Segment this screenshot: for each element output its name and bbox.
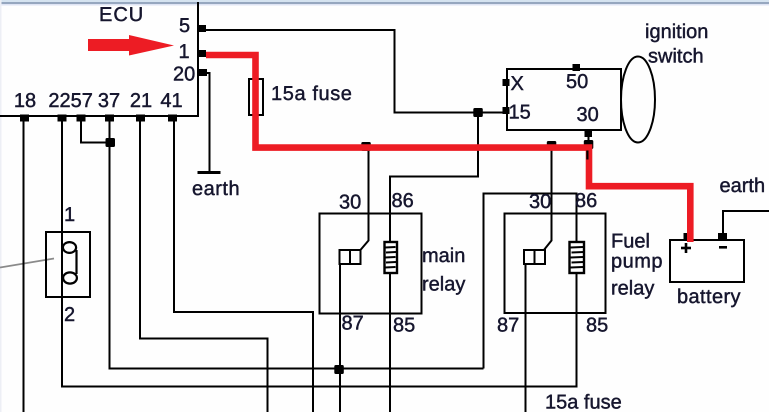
ignition switch terminal X bbox=[503, 79, 510, 86]
battery plus sign bbox=[681, 247, 691, 250]
ECU pin 22 terminal bbox=[58, 115, 67, 122]
fuel pump connector box bbox=[46, 232, 90, 297]
junction node: main relay 87 on lower bus bbox=[334, 365, 344, 374]
wire: red feed junction down to fuel pump relay 30 switch bbox=[544, 146, 552, 251]
wire: battery negative to earth at right edge bbox=[723, 211, 769, 233]
junction node: ignition 30 tap on red feed bbox=[584, 140, 594, 149]
svg-text:30: 30 bbox=[577, 104, 599, 126]
wire: ECU pin 21 down and to bottom edge bbox=[140, 121, 268, 412]
svg-text:X: X bbox=[511, 73, 524, 95]
red pointer arrow at ECU pin 1 bbox=[88, 35, 174, 56]
red power feed wire: ECU pin 1 to battery positive bbox=[206, 55, 690, 242]
left window border strip bbox=[0, 0, 2, 412]
ECU pin 18 terminal bbox=[20, 115, 29, 122]
junction node: fuel pump relay 30 tap on red feed bbox=[547, 141, 557, 150]
svg-text:20: 20 bbox=[173, 64, 195, 86]
svg-text:21: 21 bbox=[130, 90, 152, 112]
svg-text:relay: relay bbox=[611, 278, 654, 300]
fuel pump relay coil bbox=[570, 242, 585, 273]
wire: ECU pin 57 joining pin 37 wire bbox=[81, 121, 110, 143]
svg-text:85: 85 bbox=[586, 315, 608, 337]
ignition switch terminal 30 bbox=[585, 130, 593, 137]
ECU pin 5 terminal bbox=[199, 25, 206, 32]
svg-text:pump: pump bbox=[611, 251, 663, 273]
top window border strip bbox=[0, 0, 769, 2]
svg-text:15: 15 bbox=[509, 102, 531, 124]
svg-text:30: 30 bbox=[339, 192, 361, 214]
wire: main relay 87 down to junction bbox=[339, 264, 341, 412]
svg-text:main: main bbox=[422, 245, 465, 267]
connector pin 2 circle bbox=[63, 272, 77, 283]
svg-text:85: 85 bbox=[393, 315, 415, 337]
fuel pump relay switch contact bbox=[524, 250, 545, 264]
wire: lower bus up to fuel pump relay coil 86 bbox=[484, 194, 577, 369]
svg-text:ECU: ECU bbox=[99, 4, 144, 26]
svg-text:87: 87 bbox=[497, 315, 519, 337]
svg-text:switch: switch bbox=[648, 46, 704, 68]
svg-text:15a fuse: 15a fuse bbox=[545, 392, 622, 412]
svg-text:22: 22 bbox=[48, 90, 70, 112]
wire: junction to main relay coil 86 bbox=[390, 113, 478, 243]
main relay box bbox=[320, 214, 422, 314]
svg-text:41: 41 bbox=[160, 90, 182, 112]
15a fuse symbol (top) bbox=[249, 79, 263, 115]
junction node: main relay 30 tap on red feed bbox=[361, 142, 371, 151]
svg-text:Fuel: Fuel bbox=[611, 231, 650, 253]
ECU pin 41 terminal bbox=[168, 115, 177, 122]
svg-text:87: 87 bbox=[342, 313, 364, 335]
svg-text:2: 2 bbox=[64, 304, 75, 326]
wire: ignition switch terminal 30 stub down through red feed bbox=[588, 136, 590, 160]
ECU pin 20 terminal bbox=[199, 69, 207, 76]
ignition switch terminal 50 bbox=[573, 64, 581, 71]
svg-text:57: 57 bbox=[71, 90, 93, 112]
svg-text:earth: earth bbox=[720, 175, 766, 197]
svg-text:relay: relay bbox=[422, 274, 465, 296]
ignition switch contact ellipse bbox=[621, 57, 655, 143]
wire: ignition 30 stub visible below red feed bbox=[586, 151, 588, 160]
wire: red feed junction down to main relay 30 switch bbox=[360, 146, 369, 251]
svg-text:30: 30 bbox=[529, 191, 551, 213]
battery box bbox=[670, 240, 744, 282]
svg-text:50: 50 bbox=[566, 71, 588, 93]
svg-text:5: 5 bbox=[179, 15, 190, 37]
ignition switch terminal 15 bbox=[503, 107, 510, 114]
svg-text:earth: earth bbox=[192, 178, 240, 200]
wire: ECU pin 37 to lower bus bbox=[110, 121, 484, 369]
junction node: pin5 net / ignition 15 bbox=[473, 108, 483, 117]
svg-text:ignition: ignition bbox=[645, 21, 708, 43]
ECU pin 37 terminal bbox=[105, 115, 114, 122]
junction node: pin57/pin37 bbox=[106, 138, 116, 147]
wire: ECU pin 20 to earth bbox=[206, 73, 210, 172]
svg-text:1: 1 bbox=[64, 204, 75, 226]
svg-text:86: 86 bbox=[575, 190, 597, 212]
gray annotation line pointing to pump connector bbox=[0, 259, 54, 268]
battery minus sign bbox=[719, 246, 727, 249]
svg-text:37: 37 bbox=[98, 90, 120, 112]
ECU box (right and bottom edges) bbox=[197, 2, 199, 117]
main relay coil bbox=[385, 242, 398, 273]
ignition switch box bbox=[507, 69, 621, 130]
svg-text:86: 86 bbox=[392, 190, 414, 212]
fuel pump relay box bbox=[505, 214, 606, 314]
connector jumper bar bbox=[75, 250, 77, 274]
wire: fuel pump relay 87 down to bottom fuse bbox=[525, 264, 527, 412]
wire: main relay 85 down to bottom bbox=[389, 273, 391, 412]
svg-text:1: 1 bbox=[179, 41, 190, 63]
ECU pin 57 terminal bbox=[77, 115, 86, 122]
main relay switch contact bbox=[340, 250, 361, 264]
ECU pin 1 terminal bbox=[199, 50, 206, 57]
svg-text:18: 18 bbox=[14, 90, 36, 112]
svg-text:battery: battery bbox=[677, 286, 741, 308]
wire: ECU pin 41 down and to bottom edge bbox=[174, 121, 313, 412]
wire: ECU pin 18 straight down bbox=[23, 121, 25, 412]
svg-text:15a fuse: 15a fuse bbox=[271, 83, 353, 105]
ECU pin 21 terminal bbox=[136, 115, 145, 122]
battery positive terminal bbox=[684, 233, 692, 241]
wire: ECU pin 22 to fuel pump relay 85 bbox=[62, 121, 577, 387]
connector pin 1 circle bbox=[63, 242, 76, 253]
wire: ECU pin 5 to ignition switch terminal 15 bbox=[206, 30, 503, 113]
battery negative terminal bbox=[718, 233, 727, 241]
ground (earth) bar for ECU pin 20 bbox=[198, 171, 221, 174]
